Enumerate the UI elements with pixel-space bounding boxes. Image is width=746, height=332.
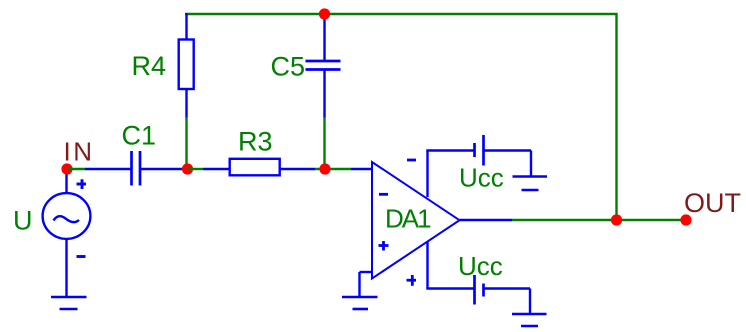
battery Ucc upper	[475, 135, 532, 177]
wire node A to R3	[188, 168, 204, 170]
wire R4 to node	[185, 117, 187, 169]
resistor R4	[179, 13, 194, 118]
svg-text:Ucc: Ucc	[458, 251, 503, 281]
junction output/feedback	[611, 214, 622, 225]
svg-text:U: U	[13, 205, 33, 235]
op-amp V- pin wire	[407, 242, 475, 289]
wire IN to C1	[67, 168, 85, 170]
ground upper right	[513, 177, 548, 191]
resistor R3	[203, 159, 315, 176]
op-amp V+ pin wire	[407, 151, 474, 198]
svg-text:C1: C1	[122, 121, 157, 151]
op-amp non-inverting input wire	[360, 272, 373, 297]
node IN	[61, 163, 72, 174]
junction top (C5/feedback)	[319, 8, 330, 19]
svg-text:Ucc: Ucc	[459, 163, 504, 193]
node OUT	[680, 214, 691, 225]
wire node B to op-amp input	[351, 168, 372, 170]
wire R3 to node B	[315, 168, 351, 170]
svg-text:IN: IN	[64, 137, 95, 167]
node B (R3/C5/op-amp)	[319, 163, 330, 174]
wire output	[512, 219, 686, 221]
ground lower right	[512, 314, 547, 326]
node A (C1/R4/R3)	[182, 163, 193, 174]
svg-text:C5: C5	[271, 51, 306, 81]
ground at op-amp input	[342, 297, 378, 309]
wire top feedback horizontal	[185, 13, 618, 15]
wire feedback vertical	[615, 13, 617, 220]
capacitor C5	[306, 14, 341, 118]
source U (AC)	[43, 169, 91, 297]
svg-text:R4: R4	[132, 51, 167, 81]
svg-text:OUT: OUT	[684, 188, 741, 218]
svg-text:R3: R3	[238, 126, 273, 156]
svg-text:DA1: DA1	[385, 204, 431, 234]
op-amp output lead	[460, 219, 513, 221]
ground at source	[51, 297, 87, 309]
op-amp DA1	[372, 162, 460, 279]
capacitor C1	[85, 151, 182, 186]
wire C5 to node	[323, 117, 325, 169]
battery Ucc lower	[475, 275, 531, 314]
